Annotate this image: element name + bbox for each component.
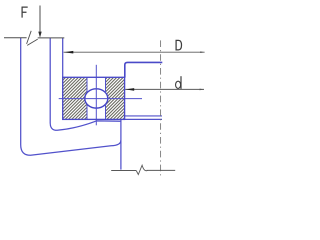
- shaft centerline (axis): [160, 40, 162, 177]
- housing outer contour: [21, 38, 121, 156]
- housing inner contour: [50, 38, 121, 131]
- F label: [22, 7, 28, 18]
- label D: [176, 40, 181, 50]
- ball horizontal centerline: [59, 98, 142, 100]
- housing bore line: [62, 38, 64, 78]
- ball ellipse: [85, 89, 108, 108]
- dimension line D: [64, 51, 205, 53]
- shaft step: [125, 62, 163, 77]
- bearing ring lower face lines: [125, 115, 162, 117]
- ground/base line with break: [111, 170, 136, 172]
- dimension line d: [125, 88, 204, 90]
- force arrow F: [39, 6, 41, 34]
- ball vertical centerline: [95, 65, 97, 126]
- break mark strokes: [27, 31, 32, 44]
- label d: [176, 76, 181, 89]
- top surface line with break: [4, 37, 27, 39]
- bearing section rectangle: [63, 77, 125, 119]
- ball pocket verticals: [86, 77, 88, 93]
- hatch of bearing section rings: [63, 77, 125, 119]
- housing right wall: [120, 119, 122, 169]
